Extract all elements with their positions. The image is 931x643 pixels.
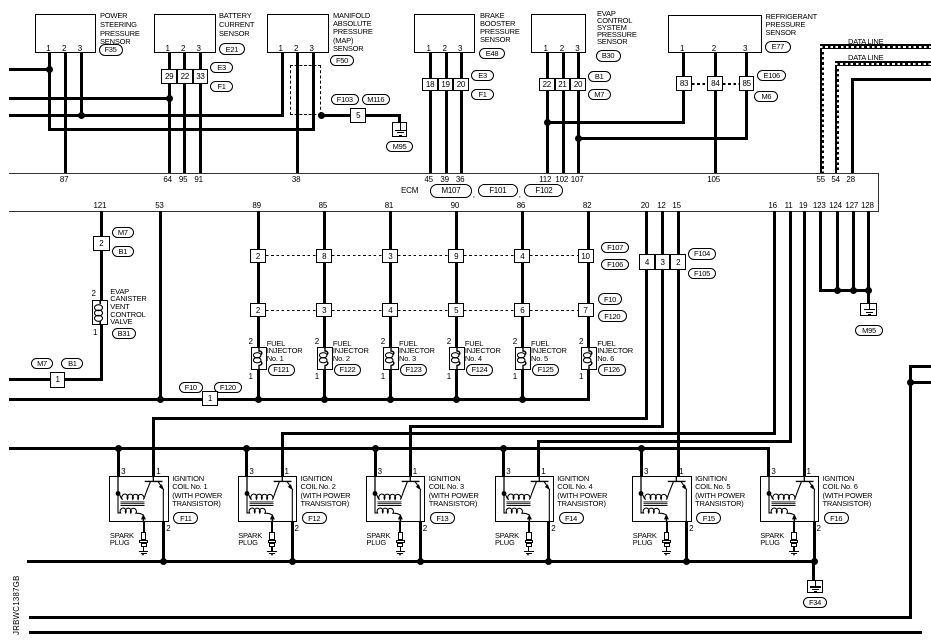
connector cell 3: [655, 254, 671, 270]
pin 1 label MAP sensor: [279, 44, 283, 53]
wire battery sensor pin 2 to ECM 95: [183, 53, 186, 173]
data line wire ECM 55: [820, 44, 825, 173]
data line wire to right edge (upper): [820, 44, 931, 49]
label SPARK PLUG 3: [366, 533, 390, 547]
ignition coil No.5 with power transistor U5: [632, 476, 692, 522]
dashed link 83-84: [692, 83, 707, 84]
connector B1 (left): [61, 358, 83, 369]
connector M6: [754, 91, 778, 102]
ECM top pin 39: [440, 175, 449, 184]
coil 4 pin 1 label: [541, 467, 545, 476]
ECM top pin 95: [179, 175, 188, 184]
wire ECM 16 down: [773, 211, 776, 435]
wire ECM 28 to right edge: [851, 78, 931, 81]
valve pin 1 label: [93, 328, 97, 337]
wire ECM 20 to ignition coil 1: [152, 417, 648, 420]
dashed link row1 3-9: [398, 255, 448, 256]
dashed link row1 4-10: [530, 255, 580, 256]
wire coil 6 to spark plug: [793, 522, 795, 531]
wire ECM 81 down to injector 3: [389, 211, 392, 401]
refrigerant pressure sensor E77 box: [668, 15, 762, 54]
junction coil 5 pin 2 ground bus: [683, 558, 690, 565]
ECM bottom pin 127: [845, 201, 858, 210]
wire brake sensor pin 1 to ECM 45: [429, 53, 432, 173]
connector box 8 (injector 2 row1): [316, 249, 332, 263]
ground M95: [392, 122, 408, 137]
connector F1 battery: [210, 81, 233, 92]
injector 1 pin 2 label: [249, 337, 253, 346]
ECM bottom pin 53: [155, 201, 164, 210]
coil 1 pin 3 label: [121, 467, 125, 476]
pin 1 label brake booster sensor: [427, 44, 431, 53]
fuel injector No.3 coil: [383, 347, 399, 370]
connector F126: [598, 364, 626, 376]
label IGNITION COIL No. 4 (WITH POWER TRANSISTOR): [557, 475, 607, 508]
connector F12: [302, 512, 327, 524]
junction coil 6 pin 2 ground bus: [811, 558, 818, 565]
connector cell 18: [422, 78, 437, 91]
coil 4 pin 2 label: [551, 524, 555, 533]
wire refrigerant pin 1 down: [682, 53, 685, 123]
junction injector 1 on bus: [255, 396, 262, 403]
wire ECM 16 to ignition coil 2: [281, 432, 776, 435]
coil 5 pin 2 label: [689, 524, 693, 533]
connector cell 20 brake: [453, 78, 468, 91]
pin 2 label MAP sensor: [294, 44, 298, 53]
wire coil 4 to spark plug: [528, 522, 530, 531]
label IGNITION COIL No. 1 (WITH POWER TRANSISTOR): [172, 475, 222, 508]
connector cell 20 evap: [570, 78, 586, 91]
connector box 6 (injector 5 row2): [514, 303, 530, 317]
wire power bus down to coil 6 pin 3: [767, 448, 770, 476]
ECM top pin 28: [846, 175, 855, 184]
connector box 4 (injector 5 row1): [514, 249, 530, 263]
label FUEL INJECTOR No. 1: [267, 340, 303, 363]
ECM top pin 64: [163, 175, 172, 184]
ECM top pin 105: [707, 175, 720, 184]
coil 3 pin 1 label: [413, 467, 417, 476]
bottom line to right vertical: [29, 616, 912, 619]
ECM label: [401, 186, 418, 195]
label SPARK PLUG 2: [238, 533, 262, 547]
label FUEL INJECTOR No. 6: [597, 340, 633, 363]
coil 1 pin 1 label: [156, 467, 160, 476]
wire MAP sensor pin 1 down: [281, 53, 284, 117]
connector E3 battery: [210, 62, 233, 73]
connector F120 (row2): [598, 310, 627, 322]
wire right edge vertical: [909, 365, 912, 619]
ECM bottom pin 81: [385, 201, 394, 210]
connector F120 (bus): [214, 382, 243, 394]
fuel injector No.6 coil: [581, 347, 597, 370]
wire EVAP sensor pin 2 to ECM 102: [562, 53, 565, 173]
injector 2 pin 1 label: [315, 372, 319, 381]
connector M107: [430, 184, 472, 198]
wire ECM 15 down to ignition coil 5 pin 1: [677, 211, 680, 476]
connector cell 83: [676, 76, 692, 91]
wire ECM 121 down: [100, 211, 103, 381]
coil 6 pin 2 label: [817, 524, 821, 533]
wire coil 5 pin 2 to ground bus: [685, 522, 688, 562]
connector F101: [478, 184, 518, 197]
wire coil 1 to spark plug: [143, 522, 145, 531]
wire power bus to coil 5 pin 3: [640, 448, 643, 476]
wire shield drain to connector 5: [321, 114, 350, 117]
spark plug 3: [394, 532, 406, 557]
connector F125: [532, 364, 560, 376]
connector cell 29: [161, 69, 177, 84]
wire ECM 89 down to injector 1: [257, 211, 260, 401]
wire down to ignition coil 3 pin 1: [409, 426, 412, 476]
connector F105: [688, 268, 716, 280]
comma 1: [473, 190, 475, 199]
dashed link row2 4-5: [398, 310, 448, 311]
wire left edge to MAP pin 1 (line A): [9, 114, 284, 117]
label FUEL INJECTOR No. 2: [333, 340, 369, 363]
connector box 9 (injector 4 row1): [448, 249, 464, 263]
junction EVAP pin3: [575, 135, 582, 142]
junction coil 2 pin 2 ground bus: [289, 558, 296, 565]
connector F15: [696, 512, 721, 524]
connector cell 85: [739, 76, 754, 91]
connector E77: [765, 41, 791, 53]
pin 3 label brake booster sensor: [458, 44, 462, 53]
wire coil 5 to spark plug: [666, 522, 668, 531]
diagram id JRBWC1387GB: [12, 575, 21, 635]
label IGNITION COIL No. 2 (WITH POWER TRANSISTOR): [301, 475, 351, 508]
pin 3 label refrigerant sensor: [743, 44, 747, 53]
spark ground bus: [27, 560, 815, 563]
connector cell 2: [670, 254, 686, 270]
ground name M95: [386, 141, 413, 152]
connector cell 22: [177, 69, 193, 84]
connector F121: [268, 364, 296, 376]
connector B30: [596, 50, 621, 62]
pin 2 label battery sensor: [181, 44, 185, 53]
junction right edge: [907, 379, 914, 386]
wire MAP sensor pin 2 to ECM 38: [296, 53, 299, 173]
injector 5 pin 2 label: [513, 337, 517, 346]
wire coil 4 pin 2 to ground bus: [547, 522, 550, 562]
wire brake sensor pin 2 to ECM 39: [445, 53, 448, 173]
data line wire ECM 54: [835, 61, 840, 173]
junction injector 5 on bus: [519, 396, 526, 403]
wire power bus to coil 3 pin 3: [374, 448, 377, 476]
connector box 7 (injector 6 row2): [578, 303, 594, 317]
label DATA LINE upper: [848, 37, 883, 46]
ECM bottom pin 12: [657, 201, 666, 210]
junction power bus coil 4: [500, 445, 507, 452]
connector F124: [466, 364, 494, 376]
connector cell 19: [438, 78, 453, 91]
brake booster pressure sensor E48 box: [414, 14, 475, 53]
connector F35: [99, 44, 123, 56]
connector cell 22 evap: [539, 78, 555, 91]
connector box 2 (injector 1 row2): [250, 303, 266, 317]
wire ECM 11 to ignition coil 4: [537, 440, 791, 443]
dashed link row1 2-8: [266, 255, 316, 256]
connector E21: [219, 43, 245, 55]
wire ground bus to F34: [812, 562, 815, 580]
dashed link row1 8-3: [332, 255, 382, 256]
wire ECM 124 down: [836, 211, 839, 290]
fuel injector No.1 coil: [251, 347, 267, 370]
wire down to ground M95: [398, 115, 401, 122]
pin 2 label EVAP pressure sensor: [560, 44, 564, 53]
wire coil 1 pin 2 to ground bus: [162, 522, 165, 562]
coil 6 pin 1 label: [807, 467, 811, 476]
label SPARK PLUG 4: [495, 533, 519, 547]
ECM bottom pin 19: [799, 201, 808, 210]
junction PS pin1 / left wire: [46, 66, 53, 73]
wire ECM 128 down: [867, 211, 870, 290]
junction ECM53/bus: [157, 396, 164, 403]
ECM top pin 91: [194, 175, 203, 184]
wire ECM 28 up: [851, 78, 854, 173]
wire power bus to coil 6 pin 3: [767, 448, 770, 476]
EVAP control system pressure sensor B30 box: [531, 14, 586, 53]
connector box 5 (injector 4 row2): [448, 303, 464, 317]
connector F107: [601, 242, 629, 254]
wire stub to right edge upper: [910, 365, 931, 368]
wire refrigerant pin 2 to ECM 105: [714, 53, 717, 173]
junction injector 4 on bus: [453, 396, 460, 403]
coil 3 pin 2 label: [423, 524, 427, 533]
junction injector 3 on bus: [387, 396, 394, 403]
ECM top pin 36: [456, 175, 465, 184]
ECM bottom pin 128: [861, 201, 874, 210]
wire EVAP pin3 to refrigerant pin3: [579, 137, 748, 140]
ECM bottom pin 82: [583, 201, 592, 210]
ignition coil No.3 with power transistor U3: [366, 476, 426, 522]
junction 128: [865, 287, 872, 294]
junction power bus coil 2: [243, 445, 250, 452]
connector B1 evap: [588, 71, 611, 82]
connector E48: [479, 48, 505, 60]
junction coil 4 pin 2 ground bus: [545, 558, 552, 565]
ground name M95 right: [855, 325, 883, 336]
connector box 10 (injector 6 row1): [578, 249, 594, 263]
coil 2 pin 2 label: [295, 524, 299, 533]
junction power bus coil 5: [638, 445, 645, 452]
connector E3 brake: [471, 70, 494, 81]
label SPARK PLUG 6: [760, 533, 784, 547]
label EVAP CANISTER VENT CONTROL VALVE: [110, 288, 146, 327]
wire down to ignition coil 1 pin 1: [152, 418, 155, 476]
ignition coil No.4 with power transistor U4: [495, 476, 555, 522]
connector F106: [601, 259, 629, 271]
connector F50: [330, 55, 354, 67]
pin 1 label battery sensor: [166, 44, 170, 53]
wire to left edge at PS sensor pin 1: [9, 68, 51, 71]
ECM bottom pin 15: [672, 201, 681, 210]
wire connector 5 to ground: [366, 114, 400, 117]
pin 3 label EVAP pressure sensor: [575, 44, 579, 53]
pin 2 label PS sensor: [62, 44, 66, 53]
wire PS sensor pin 2 to ECM 87: [64, 53, 67, 173]
wire coil 2 to spark plug: [271, 522, 273, 531]
wire coil 3 to spark plug: [399, 522, 401, 531]
spark plug 4: [523, 532, 535, 557]
connector F104: [688, 248, 716, 260]
wire power bus to coil 1 pin 3: [117, 448, 120, 476]
wire PS sensor pin 3 down: [80, 53, 83, 117]
ground F34: [807, 580, 823, 594]
ECM top pin 54: [831, 175, 840, 184]
connector cell 84: [707, 76, 723, 91]
dashed link row1 9-4: [464, 255, 514, 256]
connector cell 33: [193, 69, 209, 84]
pin 1 label EVAP pressure sensor: [544, 44, 548, 53]
coil 2 pin 3 label: [249, 467, 253, 476]
EVAP canister vent control valve coil: [92, 300, 108, 325]
pin 3 label battery sensor: [197, 44, 201, 53]
power steering pressure sensor F35 box: [35, 14, 97, 53]
fuel injector No.5 coil: [515, 347, 531, 370]
wire ECM 82 down to injector 6: [587, 211, 590, 401]
label EVAP CONTROL SYSTEM PRESSURE SENSOR: [597, 10, 637, 45]
connector B31: [112, 328, 136, 339]
ECM box top edge: [9, 173, 879, 174]
junction 124: [834, 287, 841, 294]
connector F13: [430, 512, 455, 524]
wire coil 3 pin 2 to ground bus: [419, 522, 422, 562]
junction power bus coil 1: [115, 445, 122, 452]
spark plug 6: [788, 532, 800, 557]
connector cell 4: [639, 254, 655, 270]
wire ECM 53 down to injector bus: [159, 211, 162, 400]
wire MAP sensor pin 3 down: [312, 53, 315, 131]
connector M7 evap: [588, 89, 611, 100]
connector M7 (121): [112, 227, 134, 238]
connector F14: [559, 512, 584, 524]
label SPARK PLUG 5: [633, 533, 657, 547]
label FUEL INJECTOR No. 4: [465, 340, 501, 363]
wire battery sensor pin 1 to ECM 64: [168, 53, 171, 173]
wire ECM 86 down to injector 5: [521, 211, 524, 401]
label BRAKE BOOSTER PRESSURE SENSOR: [480, 12, 520, 44]
wire coil 2 pin 2 to ground bus: [291, 522, 294, 562]
ignition coil No.1 with power transistor U1: [109, 476, 169, 522]
connector F1 brake: [471, 89, 494, 100]
dashed link row2 2-3: [266, 310, 316, 311]
connector 5 box: [350, 108, 366, 123]
spark plug 5: [661, 532, 673, 557]
connector E106: [757, 70, 786, 81]
junction 127: [850, 287, 857, 294]
ignition coil No.6 with power transistor U6: [760, 476, 820, 522]
junction battery pin1 / left wire: [166, 95, 173, 102]
wire ECM 12 to ignition coil 3: [409, 425, 664, 428]
connector F123: [400, 364, 428, 376]
label REFRIGERANT PRESSURE SENSOR: [766, 13, 818, 37]
valve pin 2 label: [92, 289, 96, 298]
wire down to ground M95 right: [867, 290, 870, 303]
connector box 2 (injector 1 row1): [250, 249, 266, 263]
ECM box bottom edge: [9, 211, 879, 212]
ground name F34: [803, 597, 827, 608]
connector M116: [362, 94, 391, 105]
ECM box right edge: [878, 173, 879, 213]
wire ECM 127 down: [852, 211, 855, 290]
dashed link row2 3-4: [332, 310, 382, 311]
manifold absolute pressure sensor F50 box: [267, 14, 329, 53]
label POWER STEERING PRESSURE SENSOR: [100, 12, 140, 47]
label IGNITION COIL No. 5 (WITH POWER TRANSISTOR): [695, 475, 745, 508]
junction PS pin3 / line A: [78, 112, 85, 119]
fuel injector No.4 coil: [449, 347, 465, 370]
junction coil 1 pin 2 ground bus: [160, 558, 167, 565]
connector F103: [331, 94, 359, 105]
connector box 3 (injector 3 row1): [382, 249, 398, 263]
battery current sensor E21 box: [154, 14, 216, 53]
ECM bottom pin 11: [785, 201, 793, 210]
wire battery sensor pin 3 to ECM 91: [199, 53, 202, 173]
junction power bus coil 3: [372, 445, 379, 452]
coil 5 pin 1 label: [679, 467, 683, 476]
connector B1 (121): [112, 246, 134, 257]
wire ECM 20 down: [645, 211, 648, 420]
label DATA LINE lower: [848, 53, 883, 62]
ignition power bus: [9, 447, 770, 450]
injector 3 pin 2 label: [381, 337, 385, 346]
connector M7 (left): [31, 358, 53, 369]
wire down to ignition coil 2 pin 1: [281, 434, 284, 477]
label FUEL INJECTOR No. 3: [399, 340, 435, 363]
ECM bottom pin 89: [252, 201, 261, 210]
wire ECM 19 down to ignition coil 6 pin 1: [803, 211, 806, 476]
ECM bottom pin 85: [319, 201, 328, 210]
ECM top pin 45: [424, 175, 433, 184]
coil 5 pin 3 label: [644, 467, 648, 476]
coil 3 pin 3 label: [378, 467, 382, 476]
dashed link 84-85: [723, 83, 739, 84]
fuel injector No.2 coil: [317, 347, 333, 370]
pin 1 label PS sensor: [46, 44, 50, 53]
wire to left edge via connector 1: [9, 378, 103, 381]
label SPARK PLUG 1: [110, 533, 134, 547]
wire down to ignition coil 4 pin 1: [537, 441, 540, 476]
ECM bottom pin 121: [94, 201, 107, 210]
wire EVAP sensor pin 3 to ECM 107: [577, 53, 580, 173]
connector F16: [824, 512, 849, 524]
wire ECM 123 down: [819, 211, 822, 292]
junction shield drain: [318, 112, 325, 119]
junction injector 2 on bus: [321, 396, 328, 403]
wire ECM 85 down to injector 2: [323, 211, 326, 401]
injector 3 pin 1 label: [381, 372, 385, 381]
ECM top pin 87: [60, 175, 69, 184]
coil 4 pin 3 label: [506, 467, 510, 476]
ECM top pin 102: [555, 175, 568, 184]
wire left edge to battery pin 1: [9, 97, 171, 100]
coil 2 pin 1 label: [285, 467, 289, 476]
connector box 4 (injector 3 row2): [382, 303, 398, 317]
wire ECM 90 down to injector 4: [455, 211, 458, 401]
ECM bottom pin 124: [829, 201, 842, 210]
injector 6 pin 1 label: [579, 372, 583, 381]
injector 4 pin 2 label: [447, 337, 451, 346]
ground M95 right: [860, 303, 877, 317]
ECM bottom pin 86: [517, 201, 526, 210]
wire PS sensor pin 1 down: [48, 53, 51, 131]
bottom border line: [29, 631, 922, 634]
coil 1 pin 2 label: [166, 524, 170, 533]
wire EVAP sensor pin 1 to ECM 112: [546, 53, 549, 173]
pin 1 label refrigerant sensor: [680, 44, 684, 53]
ECM bottom pin 16: [768, 201, 777, 210]
pin 3 label MAP sensor: [310, 44, 314, 53]
